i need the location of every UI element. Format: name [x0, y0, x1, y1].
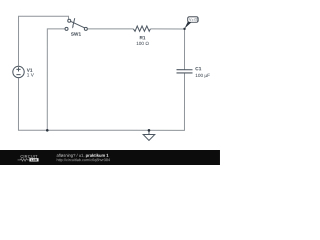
svg-text:100 µF: 100 µF [195, 73, 210, 78]
probe flag pointer [184, 22, 191, 29]
node junction dot (ground / bottom rail) [148, 129, 151, 132]
wire bottom rail [18, 129, 184, 131]
node dot at probe corner [183, 28, 185, 30]
wire right vertical to capacitor [184, 29, 186, 70]
svg-text:C1: C1 [195, 66, 201, 71]
svg-text:http://circuitlab.com/c6q8hvr3: http://circuitlab.com/c6q8hvr384 [56, 158, 110, 162]
probe flag Vc(t) [188, 17, 198, 22]
svg-text:100 Ω: 100 Ω [136, 41, 149, 46]
wire top-left vertical (V1 top lead up) [18, 16, 20, 66]
wire top horizontal to switch [18, 16, 69, 19]
voltage source V1 [13, 66, 24, 77]
wire resistor to top-right corner [150, 28, 184, 30]
footer bar [0, 150, 220, 165]
node junction dot (left riser / bottom rail) [46, 129, 49, 132]
CircuitLab logo LAB box [29, 158, 38, 161]
svg-text:SW1: SW1 [71, 32, 82, 37]
resistor R1 [133, 26, 150, 31]
capacitor C1 [177, 70, 193, 73]
label C1 value [195, 66, 210, 78]
svg-text:afløsning? / u1, praktikum 1: afløsning? / u1, praktikum 1 [56, 153, 109, 158]
wire switch common to resistor [87, 28, 133, 30]
wire V1 bottom lead down to bottom rail [17, 77, 19, 130]
CircuitLab logo zigzag [18, 159, 29, 162]
wire switch lower throw to left riser [47, 29, 65, 130]
wire capacitor to bottom rail [183, 73, 185, 131]
svg-text:LAB: LAB [31, 158, 38, 162]
wire ground stub [148, 130, 150, 134]
switch SW1 [65, 18, 87, 30]
label R1 value [136, 35, 149, 46]
ground [143, 135, 155, 141]
svg-text:1 V: 1 V [27, 73, 35, 78]
svg-text:R1: R1 [140, 35, 146, 40]
label V1 value [27, 68, 35, 78]
